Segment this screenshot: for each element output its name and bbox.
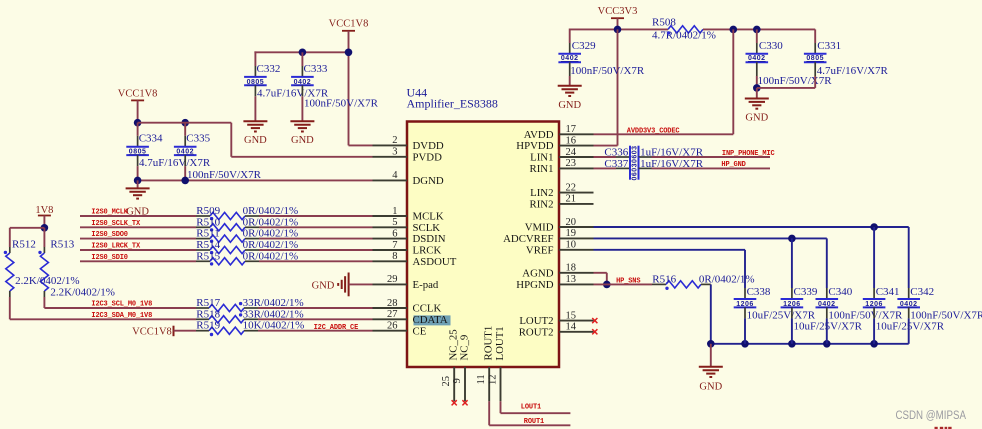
- svg-text:PVDD: PVDD: [413, 151, 443, 163]
- svg-text:11: 11: [476, 374, 487, 384]
- svg-text:7: 7: [392, 240, 397, 251]
- svg-text:C332: C332: [257, 63, 281, 75]
- svg-text:VCC1V8: VCC1V8: [132, 326, 172, 337]
- svg-text:4.7uF/16V/X7R: 4.7uF/16V/X7R: [817, 65, 889, 77]
- svg-text:14: 14: [566, 322, 577, 333]
- svg-text:20: 20: [566, 217, 577, 228]
- svg-text:C330: C330: [759, 40, 783, 52]
- svg-text:0402: 0402: [748, 55, 766, 62]
- svg-text:28: 28: [387, 298, 398, 309]
- svg-text:33R/0402/1%: 33R/0402/1%: [243, 308, 304, 320]
- svg-text:I2S0_SDI0: I2S0_SDI0: [91, 254, 127, 262]
- svg-text:0R/0402/1%: 0R/0402/1%: [243, 228, 299, 240]
- svg-text:0R/0402/1%: 0R/0402/1%: [699, 274, 755, 286]
- svg-text:CSDN @MIPSA: CSDN @MIPSA: [896, 410, 967, 422]
- svg-text:R517: R517: [196, 297, 220, 309]
- svg-text:ROUT1: ROUT1: [483, 326, 495, 361]
- svg-text:0603: 0603: [632, 163, 639, 181]
- svg-text:19: 19: [566, 228, 577, 239]
- svg-text:ADCVREF: ADCVREF: [503, 233, 553, 245]
- svg-text:ROUT1: ROUT1: [524, 418, 544, 426]
- svg-text:CCLK: CCLK: [413, 303, 442, 315]
- svg-text:4.7R/0402/1%: 4.7R/0402/1%: [652, 30, 716, 42]
- svg-text:0402: 0402: [818, 301, 836, 308]
- svg-text:10: 10: [566, 240, 577, 251]
- svg-text:C336: C336: [604, 146, 628, 158]
- svg-text:22: 22: [566, 182, 577, 193]
- svg-text:DSDIN: DSDIN: [413, 233, 446, 245]
- svg-text:25: 25: [441, 376, 452, 387]
- svg-text:9: 9: [452, 378, 463, 383]
- svg-text:18: 18: [566, 263, 577, 274]
- svg-text:C337: C337: [604, 158, 628, 170]
- svg-text:E-pad: E-pad: [413, 279, 439, 291]
- svg-text:I2C3_SCL_M0_1V8: I2C3_SCL_M0_1V8: [91, 301, 152, 309]
- svg-text:16: 16: [566, 135, 577, 146]
- svg-text:23: 23: [566, 158, 577, 169]
- svg-text:INP_PHONE_MIC: INP_PHONE_MIC: [722, 150, 775, 158]
- svg-text:I2S0_SDO0: I2S0_SDO0: [91, 231, 127, 239]
- svg-text:15: 15: [566, 310, 577, 321]
- svg-text:R519: R519: [196, 320, 220, 332]
- svg-text:0603: 0603: [632, 145, 639, 163]
- svg-text:1: 1: [392, 206, 397, 217]
- svg-text:CE: CE: [413, 325, 427, 337]
- svg-text:ASDOUT: ASDOUT: [413, 256, 457, 268]
- svg-text:VMID: VMID: [525, 222, 554, 234]
- svg-text:1206: 1206: [783, 301, 801, 308]
- svg-text:21: 21: [566, 194, 577, 205]
- svg-text:12: 12: [487, 375, 498, 386]
- svg-text:GND: GND: [244, 135, 267, 146]
- svg-text:24: 24: [566, 147, 577, 158]
- svg-text:4: 4: [392, 170, 398, 181]
- svg-text:C340: C340: [828, 286, 852, 298]
- svg-text:I2S0_SCLK_TX: I2S0_SCLK_TX: [91, 220, 141, 228]
- svg-text:0402: 0402: [900, 301, 918, 308]
- svg-text:R513: R513: [50, 238, 74, 250]
- svg-text:0R/0402/1%: 0R/0402/1%: [243, 205, 299, 217]
- svg-text:33R/0402/1%: 33R/0402/1%: [243, 297, 304, 309]
- svg-text:R516: R516: [652, 274, 676, 286]
- svg-text:VCC1V8: VCC1V8: [118, 89, 158, 100]
- svg-text:VREF: VREF: [526, 244, 554, 256]
- svg-text:HP_GND: HP_GND: [721, 161, 745, 169]
- svg-text:5: 5: [392, 217, 397, 228]
- svg-text:LIN1: LIN1: [530, 152, 553, 164]
- svg-text:0805: 0805: [806, 55, 824, 62]
- svg-text:17: 17: [566, 124, 577, 135]
- svg-text:R515: R515: [196, 250, 220, 262]
- svg-text:GND: GND: [745, 113, 768, 124]
- svg-text:0402: 0402: [294, 79, 312, 86]
- svg-text:100nF/50V/X7R: 100nF/50V/X7R: [570, 65, 645, 77]
- svg-text:RIN1: RIN1: [530, 163, 554, 175]
- svg-text:MCLK: MCLK: [413, 211, 444, 223]
- svg-text:4.7uF/16V/X7R: 4.7uF/16V/X7R: [139, 157, 211, 169]
- svg-text:GND: GND: [312, 280, 335, 291]
- svg-text:HPGND: HPGND: [516, 279, 553, 291]
- svg-text:LOUT1: LOUT1: [521, 404, 541, 412]
- svg-text:2.2K/0402/1%: 2.2K/0402/1%: [15, 275, 79, 287]
- svg-text:C331: C331: [817, 40, 841, 52]
- svg-text:RIN2: RIN2: [530, 199, 554, 211]
- svg-text:AVDD: AVDD: [524, 129, 554, 141]
- svg-text:2.2K/0402/1%: 2.2K/0402/1%: [50, 286, 114, 298]
- svg-text:10uF/25V/X7R: 10uF/25V/X7R: [876, 321, 945, 333]
- svg-text:0805: 0805: [129, 148, 147, 155]
- svg-text:3: 3: [392, 147, 397, 158]
- svg-text:R508: R508: [652, 16, 676, 28]
- svg-text:R509: R509: [196, 205, 220, 217]
- svg-text:AGND: AGND: [522, 267, 553, 279]
- svg-text:27: 27: [387, 309, 398, 320]
- svg-text:100nF/50V/X7R: 100nF/50V/X7R: [910, 310, 982, 322]
- svg-text:I2S0_MCLK: I2S0_MCLK: [91, 209, 128, 217]
- svg-text:8: 8: [392, 251, 397, 262]
- svg-text:26: 26: [387, 321, 398, 332]
- svg-text:C341: C341: [876, 286, 900, 298]
- svg-text:LIN2: LIN2: [530, 187, 553, 199]
- svg-text:C334: C334: [139, 133, 163, 145]
- svg-text:R511: R511: [196, 228, 219, 240]
- svg-text:2: 2: [392, 135, 397, 146]
- svg-text:R512: R512: [12, 238, 36, 250]
- svg-text:1uF/16V/X7R: 1uF/16V/X7R: [640, 158, 704, 170]
- svg-text:0R/0402/1%: 0R/0402/1%: [243, 239, 299, 251]
- svg-text:C339: C339: [794, 286, 818, 298]
- svg-text:I2S0_LRCK_TX: I2S0_LRCK_TX: [91, 243, 141, 251]
- svg-text:LOUT1: LOUT1: [494, 326, 506, 360]
- svg-text:R518: R518: [196, 308, 220, 320]
- svg-text:C329: C329: [572, 40, 596, 52]
- svg-text:0402: 0402: [176, 148, 194, 155]
- svg-text:13: 13: [566, 274, 577, 285]
- svg-text:0805: 0805: [247, 79, 265, 86]
- svg-text:6: 6: [392, 228, 397, 239]
- svg-text:100nF/50V/X7R: 100nF/50V/X7R: [304, 98, 379, 110]
- svg-text:100nF/50V/X7R: 100nF/50V/X7R: [187, 169, 262, 181]
- svg-text:C335: C335: [186, 133, 210, 145]
- svg-text:0402: 0402: [561, 55, 579, 62]
- svg-text:AVDD3V3_CODEC: AVDD3V3_CODEC: [627, 127, 680, 135]
- svg-text:LOUT2: LOUT2: [519, 315, 553, 327]
- svg-text:C333: C333: [304, 63, 328, 75]
- svg-text:R510: R510: [196, 216, 220, 228]
- svg-text:1206: 1206: [736, 301, 754, 308]
- svg-text:GND: GND: [558, 100, 581, 111]
- svg-text:0R/0402/1%: 0R/0402/1%: [243, 250, 299, 262]
- svg-text:DVDD: DVDD: [413, 140, 444, 152]
- svg-text:GND: GND: [291, 135, 314, 146]
- svg-text:1V8: 1V8: [35, 205, 53, 216]
- svg-text:C342: C342: [910, 286, 934, 298]
- svg-text:CDATA: CDATA: [413, 314, 448, 326]
- svg-text:C338: C338: [747, 286, 771, 298]
- svg-text:1uF/16V/X7R: 1uF/16V/X7R: [640, 146, 704, 158]
- svg-text:I2C3_SDA_M0_1V8: I2C3_SDA_M0_1V8: [91, 312, 152, 320]
- svg-text:HPVDD: HPVDD: [516, 140, 553, 152]
- svg-text:ROUT2: ROUT2: [519, 326, 554, 338]
- svg-text:10uF/25V/X7R: 10uF/25V/X7R: [794, 321, 863, 333]
- svg-text:HP_SNS: HP_SNS: [616, 278, 640, 286]
- svg-text:NC_9: NC_9: [459, 335, 471, 361]
- svg-text:VCC3V3: VCC3V3: [598, 6, 638, 17]
- svg-text:SCLK: SCLK: [413, 222, 441, 234]
- svg-text:29: 29: [387, 274, 398, 285]
- svg-text:VCC1V8: VCC1V8: [329, 19, 369, 30]
- svg-text:DGND: DGND: [413, 175, 444, 187]
- svg-text:GND: GND: [699, 382, 722, 393]
- svg-text:1206: 1206: [865, 301, 883, 308]
- svg-text:10K/0402/1%: 10K/0402/1%: [243, 320, 305, 332]
- svg-text:I2C_ADDR_CE: I2C_ADDR_CE: [314, 324, 359, 332]
- svg-text:0R/0402/1%: 0R/0402/1%: [243, 216, 299, 228]
- svg-text:R514: R514: [196, 239, 220, 251]
- svg-text:LRCK: LRCK: [413, 245, 442, 257]
- svg-text:Amplifier_ES8388: Amplifier_ES8388: [407, 97, 498, 111]
